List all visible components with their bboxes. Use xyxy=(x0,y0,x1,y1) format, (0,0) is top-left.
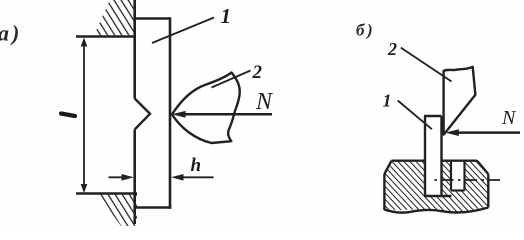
svg-text:а): а) xyxy=(0,21,22,46)
dimension h right arrow xyxy=(177,176,214,178)
svg-text:h: h xyxy=(191,155,202,176)
leader line to label 2 xyxy=(212,71,251,88)
dimension h left arrow xyxy=(109,176,129,178)
block top surface left segment xyxy=(392,159,425,161)
svg-text:2: 2 xyxy=(387,39,397,59)
svg-text:2: 2 xyxy=(252,62,263,83)
centerline (dash-dot) xyxy=(435,179,501,181)
rectangular hole right wall xyxy=(463,161,465,191)
leader line to label 1 xyxy=(152,18,214,44)
block top surface right segment xyxy=(442,159,478,161)
svg-text:N: N xyxy=(501,107,517,129)
dimension l top arrowhead xyxy=(81,38,88,47)
bottom wall surface line xyxy=(76,192,137,195)
svg-text:1: 1 xyxy=(221,4,232,28)
arrowhead N (left figure) xyxy=(172,111,186,118)
dimension line l xyxy=(83,42,85,188)
svg-text:б): б) xyxy=(356,21,375,40)
block left edge xyxy=(383,174,385,210)
leader line to label 2 (right figure) xyxy=(401,48,452,82)
block right chamfer xyxy=(477,161,488,175)
block right edge xyxy=(487,174,489,207)
dimension l bottom arrowhead xyxy=(81,184,88,193)
leader line to label 1 (right figure) xyxy=(398,101,432,130)
block left chamfer xyxy=(384,161,391,174)
notch in bar left edge xyxy=(135,99,150,130)
punch tool 2 (right figure) outline xyxy=(444,67,476,135)
force line N (left figure) xyxy=(183,113,272,116)
force line N (right figure) xyxy=(456,131,520,134)
label l xyxy=(61,114,75,117)
block hatching (with bar slot and rectangular hole cut out) xyxy=(384,161,488,212)
top wall surface line xyxy=(76,35,136,38)
slot bottom line under bar xyxy=(424,195,452,197)
bar 1 bottom edge xyxy=(134,206,172,209)
bar 1 left edge upper (wall boundary) xyxy=(133,0,136,99)
bar 1 right edge xyxy=(169,17,172,208)
svg-text:1: 1 xyxy=(383,91,392,111)
rectangular hole bottom xyxy=(451,189,465,191)
bar 1 left edge lower xyxy=(133,130,136,225)
bar 1 top edge xyxy=(134,17,171,20)
svg-text:N: N xyxy=(255,89,274,115)
wedge tool 2 outline xyxy=(172,73,240,144)
top wall hatching xyxy=(94,0,135,35)
arrowhead N (right figure) xyxy=(445,129,459,136)
specimen bar 1 (right figure) outline xyxy=(424,116,426,196)
rectangular hole left wall xyxy=(450,161,452,191)
block bottom break line (wavy) xyxy=(384,208,488,213)
bottom wall hatching xyxy=(98,195,137,227)
